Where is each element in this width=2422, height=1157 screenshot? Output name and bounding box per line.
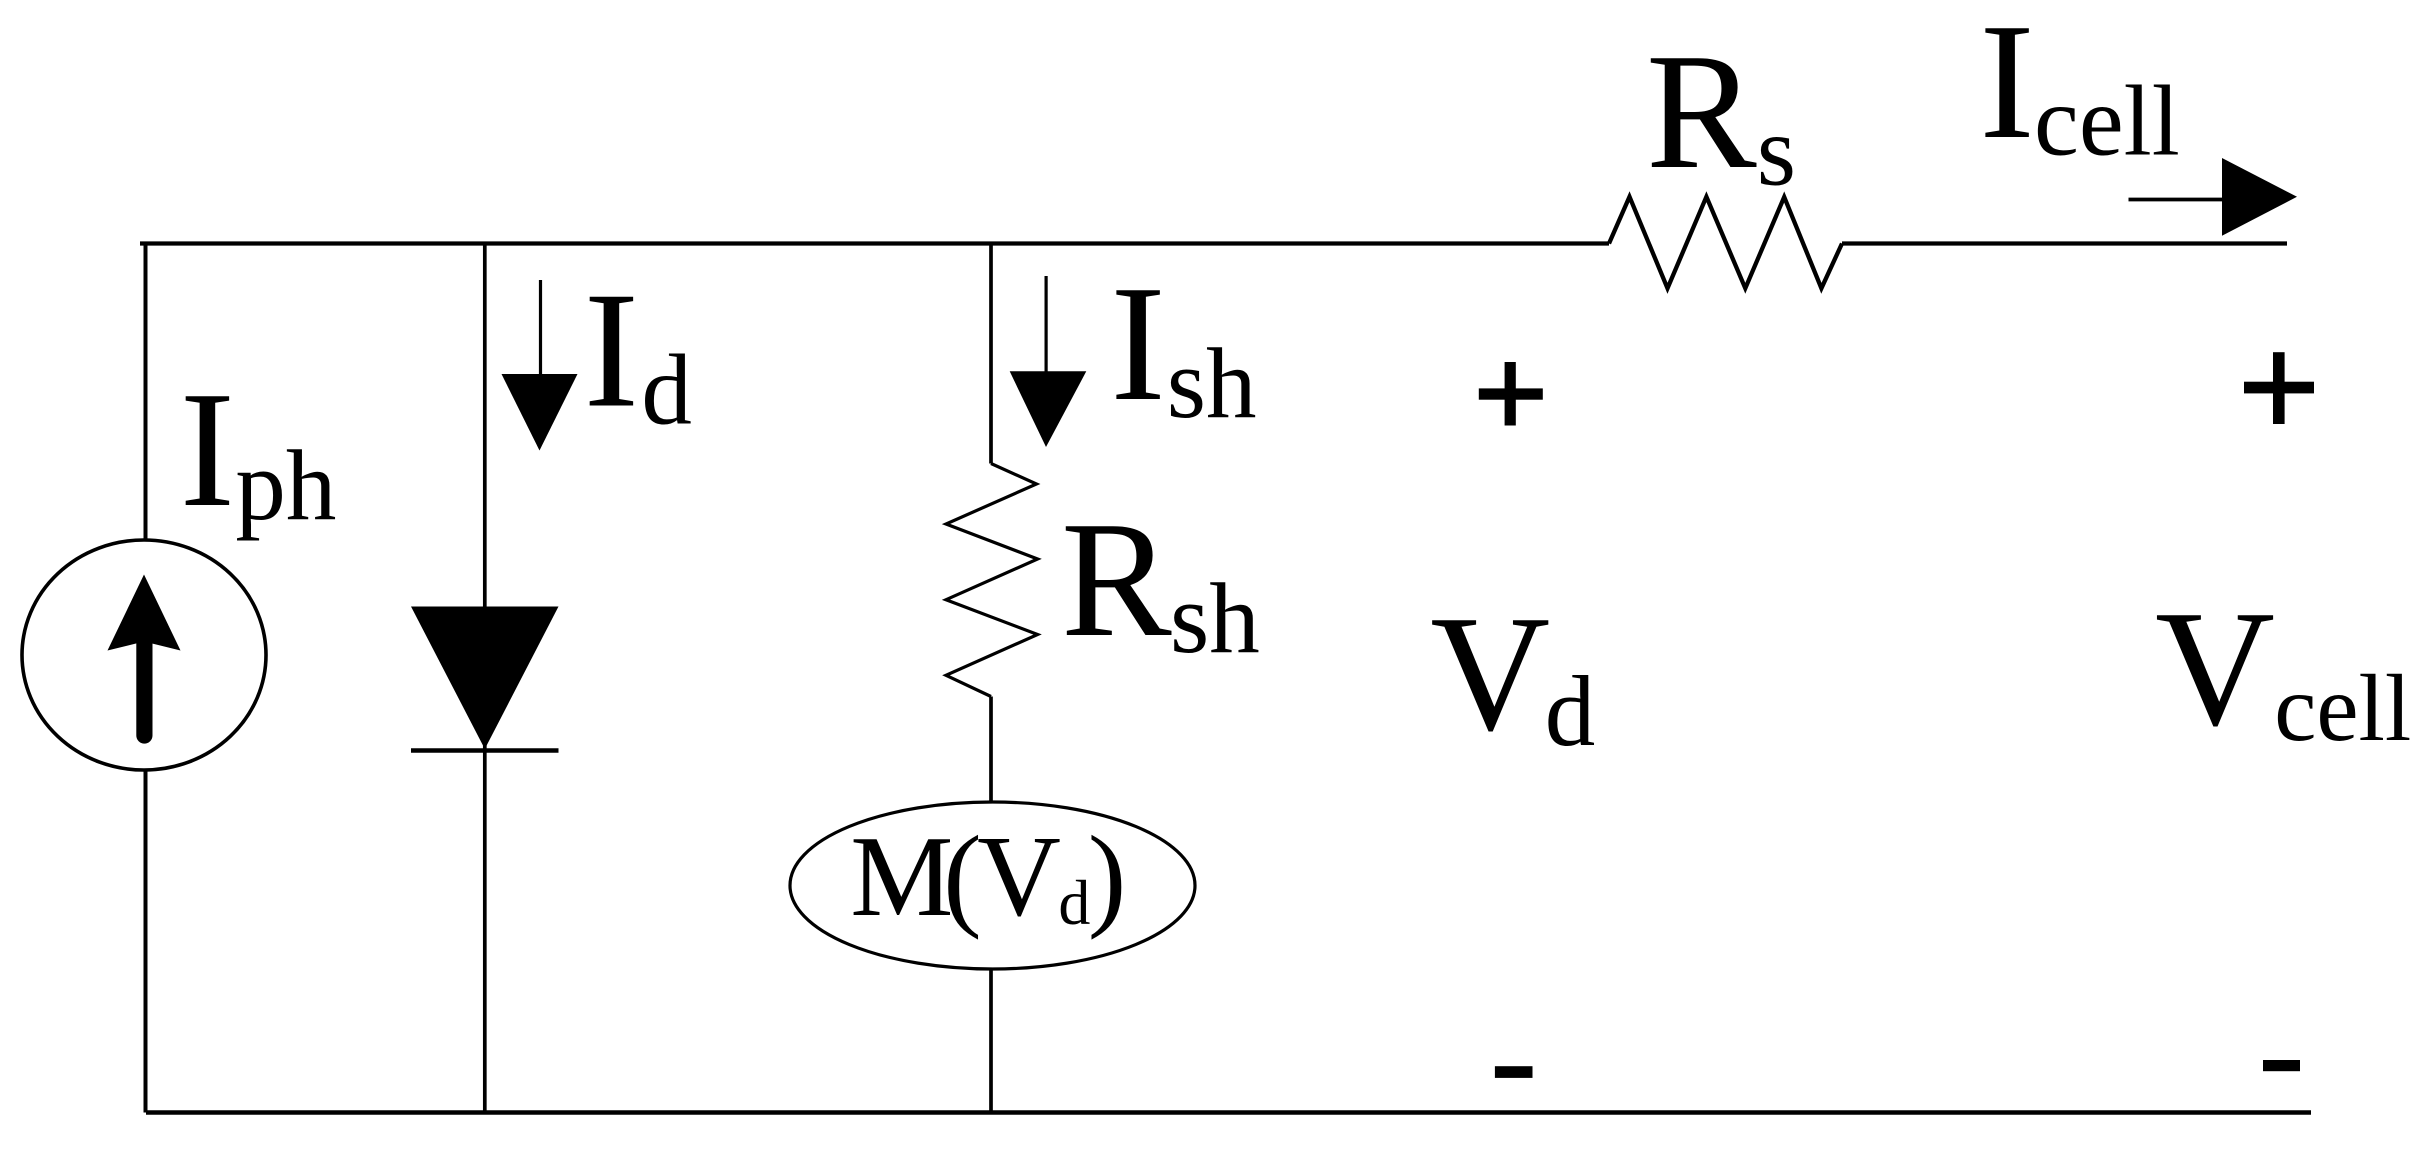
svg-text:s: s — [1757, 94, 1796, 206]
svg-text:(: ( — [943, 813, 982, 941]
svg-text:cell: cell — [2034, 65, 2180, 177]
svg-text:sh: sh — [1167, 327, 1257, 439]
svg-text:cell: cell — [2274, 655, 2411, 761]
svg-text:d: d — [641, 334, 692, 446]
svg-text:d: d — [1545, 655, 1596, 767]
svg-text:I: I — [584, 258, 639, 442]
svg-text:R: R — [1061, 487, 1172, 671]
svg-text:d: d — [1058, 867, 1090, 938]
svg-text:V: V — [977, 813, 1061, 941]
svg-text:I: I — [1979, 0, 2034, 173]
svg-text:sh: sh — [1170, 562, 1260, 674]
svg-text:M: M — [850, 813, 953, 941]
svg-text:I: I — [180, 357, 235, 541]
svg-text:ph: ph — [235, 429, 336, 541]
svg-text:): ) — [1088, 813, 1127, 941]
svg-text:I: I — [1110, 251, 1165, 435]
svg-text:V: V — [1430, 581, 1550, 765]
svg-text:V: V — [2155, 576, 2275, 760]
svg-text:R: R — [1646, 19, 1757, 203]
